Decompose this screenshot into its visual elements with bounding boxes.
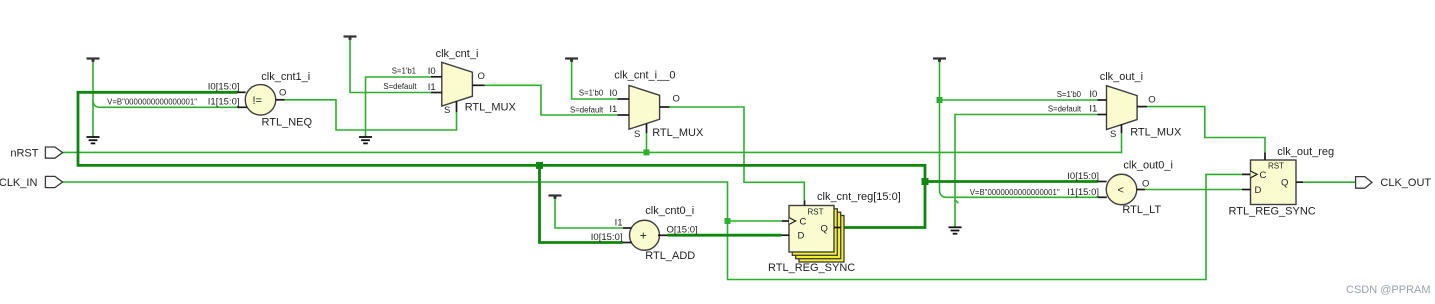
svg-text:I1: I1 xyxy=(615,217,623,228)
svg-text:clk_cnt0_i: clk_cnt0_i xyxy=(645,205,694,217)
svg-text:<: < xyxy=(1118,185,1124,197)
svg-text:S=1'b1: S=1'b1 xyxy=(392,67,416,76)
svg-text:D: D xyxy=(1255,185,1262,196)
svg-text:CLK_OUT: CLK_OUT xyxy=(1380,177,1431,189)
svg-text:I0[15:0]: I0[15:0] xyxy=(1067,171,1099,182)
svg-text:clk_cnt_reg[15:0]: clk_cnt_reg[15:0] xyxy=(817,191,901,203)
svg-text:clk_cnt_i__0: clk_cnt_i__0 xyxy=(614,70,675,82)
power T-bar T5 xyxy=(933,59,946,62)
wire MUX3 O to clk_out_reg RST xyxy=(1147,107,1265,153)
node bus junction 2 xyxy=(922,178,929,185)
wire bus clk_cnt_reg Q main trunk xyxy=(78,92,925,227)
svg-text:O: O xyxy=(673,94,680,105)
svg-text:RTL_ADD: RTL_ADD xyxy=(645,250,695,262)
svg-text:O: O xyxy=(1148,95,1155,106)
wire bus branch to ADD I0 xyxy=(540,165,624,242)
node junction CLK_IN/REG1.C xyxy=(725,218,731,224)
svg-text:I1[15:0]: I1[15:0] xyxy=(208,97,240,108)
svg-text:CLK_IN: CLK_IN xyxy=(0,177,37,189)
wire CLK_IN branch to clk_cnt_reg C xyxy=(728,220,783,222)
node junction const1/MUX3.I0 xyxy=(937,97,943,103)
svg-text:RTL_REG_SYNC: RTL_REG_SYNC xyxy=(768,262,855,274)
svg-text:I0[15:0]: I0[15:0] xyxy=(208,81,240,92)
wire nRST net xyxy=(63,133,1122,152)
svg-text:V=B"0000000000000001": V=B"0000000000000001" xyxy=(107,97,197,106)
wire curve tap to LT I1 xyxy=(940,190,1099,197)
wire T4 const to ADD I1 xyxy=(555,196,623,229)
svg-text:RTL_LT: RTL_LT xyxy=(1122,204,1161,216)
svg-text:I1[15:0]: I1[15:0] xyxy=(1067,187,1099,198)
svg-text:I1: I1 xyxy=(428,82,436,93)
wire nRST branch to clk_cnt_i__0 S xyxy=(646,133,648,152)
svg-text:I0: I0 xyxy=(428,66,436,77)
wire T3 const to MUX2 I0 xyxy=(572,59,618,100)
svg-text:I1: I1 xyxy=(1089,104,1097,115)
wire clk_out_reg Q to CLK_OUT port xyxy=(1303,181,1356,183)
wire CLK_IN net xyxy=(63,174,1242,279)
register clk_cnt_reg[15:0] RTL_REG_SYNC (stacked) xyxy=(768,191,901,274)
svg-text:D: D xyxy=(798,231,805,242)
mux U3 clk_cnt_i__0 RTL_MUX xyxy=(570,70,704,140)
register clk_out_reg RTL_REG_SYNC xyxy=(1229,146,1335,217)
node junction nRST/MUX2.S xyxy=(644,149,650,155)
ground G2 xyxy=(359,137,372,143)
wire bus ADD O to clk_cnt_reg D xyxy=(668,234,782,237)
wire T2 const to MUX1 I1 xyxy=(350,37,431,93)
comparator clk_out0_i RTL_LT xyxy=(970,159,1173,216)
svg-text:S: S xyxy=(1110,129,1116,140)
svg-text:V=B"0000000000000001": V=B"0000000000000001" xyxy=(970,188,1060,197)
svg-text:I0: I0 xyxy=(1089,89,1097,100)
svg-text:clk_cnt_i: clk_cnt_i xyxy=(436,48,479,60)
svg-text:S=default: S=default xyxy=(1048,104,1082,113)
mux U5 clk_out_i RTL_MUX xyxy=(1048,71,1182,140)
mux U2 clk_cnt_i RTL_MUX xyxy=(383,48,516,116)
wire curve tap to NEQ I1 xyxy=(93,101,238,108)
svg-text:S=default: S=default xyxy=(570,105,604,114)
svg-text:O[15:0]: O[15:0] xyxy=(667,225,698,236)
svg-text:S=1'b0: S=1'b0 xyxy=(1057,90,1082,99)
svg-text:+: + xyxy=(640,229,647,243)
svg-text:S=default: S=default xyxy=(383,82,417,91)
wire MUX2 O to clk_cnt_reg RST xyxy=(670,107,805,200)
port CLK_OUT xyxy=(1356,177,1432,189)
wire NEQ O to MUX1 S xyxy=(285,100,457,130)
svg-text:C: C xyxy=(1260,170,1267,181)
svg-text:clk_cnt1_i: clk_cnt1_i xyxy=(261,71,310,83)
svg-text:clk_out0_i: clk_out0_i xyxy=(1123,159,1173,171)
wire MUX3 I1 to ground xyxy=(955,115,1098,228)
comparator U1 clk_cnt1_i RTL_NEQ xyxy=(107,71,312,129)
svg-text:nRST: nRST xyxy=(10,147,38,159)
svg-text:RTL_MUX: RTL_MUX xyxy=(1130,126,1182,138)
ground G1 xyxy=(87,137,100,143)
svg-text:RTL_NEQ: RTL_NEQ xyxy=(262,117,313,129)
wire T5 const-1 net vertical xyxy=(939,59,941,191)
svg-text:S=1'b0: S=1'b0 xyxy=(579,88,604,97)
svg-text:clk_out_reg: clk_out_reg xyxy=(1277,146,1334,158)
svg-text:Q: Q xyxy=(1281,177,1288,188)
adder U4 clk_cnt0_i RTL_ADD xyxy=(591,205,698,262)
svg-text:clk_out_i: clk_out_i xyxy=(1100,71,1143,83)
svg-text:I0[15:0]: I0[15:0] xyxy=(591,232,623,243)
wire const net V=1 to NEQ I1 xyxy=(92,59,94,138)
svg-text:C: C xyxy=(800,217,807,228)
svg-text:Q: Q xyxy=(821,223,828,234)
power T-bar T1 xyxy=(87,59,100,62)
svg-text:CSDN @PPRAM: CSDN @PPRAM xyxy=(1346,284,1431,296)
wire ground net to MUX1 I0 xyxy=(366,77,432,137)
svg-text:O: O xyxy=(478,71,485,82)
wire MUX1 O to MUX2 I1 xyxy=(485,85,618,115)
svg-text:O: O xyxy=(279,87,286,98)
ground G3 xyxy=(949,227,962,233)
svg-text:O: O xyxy=(1142,178,1149,189)
svg-text:I0: I0 xyxy=(609,88,617,99)
port nRST xyxy=(10,147,62,159)
svg-text:RST: RST xyxy=(808,207,824,216)
power T-bar T2 xyxy=(344,37,357,40)
svg-text:RTL_MUX: RTL_MUX xyxy=(465,102,517,114)
svg-text:S: S xyxy=(634,129,640,140)
svg-text:RST: RST xyxy=(1268,161,1284,170)
wire const-1 branch to MUX3 I0 xyxy=(940,99,1098,101)
svg-text:RTL_REG_SYNC: RTL_REG_SYNC xyxy=(1229,206,1316,218)
svg-text:S: S xyxy=(444,105,450,116)
power T-bar T3 xyxy=(565,59,578,62)
svg-text:I1: I1 xyxy=(609,104,617,115)
wire hop slash xyxy=(955,200,959,204)
svg-text:!=: != xyxy=(253,95,262,107)
svg-text:RTL_MUX: RTL_MUX xyxy=(652,127,704,139)
power T-bar T4 xyxy=(549,196,562,199)
wire LT O to clk_out_reg D xyxy=(1145,189,1242,191)
wire bus branch to LT I0 xyxy=(925,180,1098,183)
node bus junction 1 xyxy=(536,162,543,169)
port CLK_IN xyxy=(0,176,63,189)
